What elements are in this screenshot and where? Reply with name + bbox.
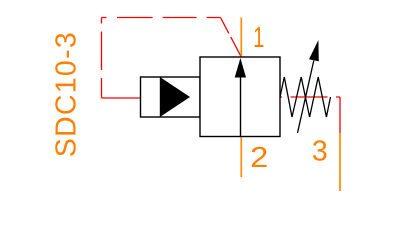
- pilot line left edge (red dashed): [101, 18, 103, 99]
- pilot triangle base line: [160, 77, 162, 117]
- pilot triangle (filled): [161, 78, 190, 117]
- adjustment arrow shaft: [298, 61, 314, 134]
- svg-text:3: 3: [312, 135, 328, 167]
- svg-text:1: 1: [253, 22, 264, 54]
- port 2 wire (orange): [240, 137, 242, 178]
- poppet arrowhead: [235, 58, 246, 78]
- svg-text:2: 2: [250, 142, 268, 174]
- pilot line diagonal to valve apex (red dashed): [221, 18, 242, 57]
- adjustment arrowhead: [309, 40, 319, 61]
- svg-text:SDC10-3: SDC10-3: [51, 31, 83, 157]
- wire pilot-to-solenoid (red): [102, 97, 141, 99]
- main valve box U1: [200, 57, 280, 137]
- port 1 wire (orange): [240, 18, 242, 58]
- spring: [280, 77, 331, 117]
- pilot/solenoid box: [141, 77, 201, 117]
- pilot line top edge (red dashed): [102, 17, 221, 19]
- pilot line down to port 3 (red): [339, 97, 341, 133]
- poppet flow line: [240, 76, 242, 137]
- port 3 wire (orange): [339, 133, 341, 191]
- pilot line through spring (red dashed): [280, 96, 340, 98]
